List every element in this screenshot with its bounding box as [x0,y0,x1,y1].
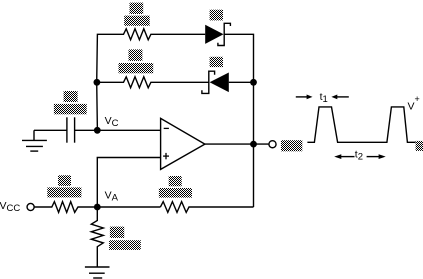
svg-text:V+: V+ [408,94,420,113]
svg-text:t1: t1 [320,91,328,105]
svg-text:VC: VC [105,115,119,129]
svg-text:VA: VA [105,190,119,204]
svg-text:t2: t2 [355,148,363,162]
svg-text:VCC: VCC [0,200,20,214]
